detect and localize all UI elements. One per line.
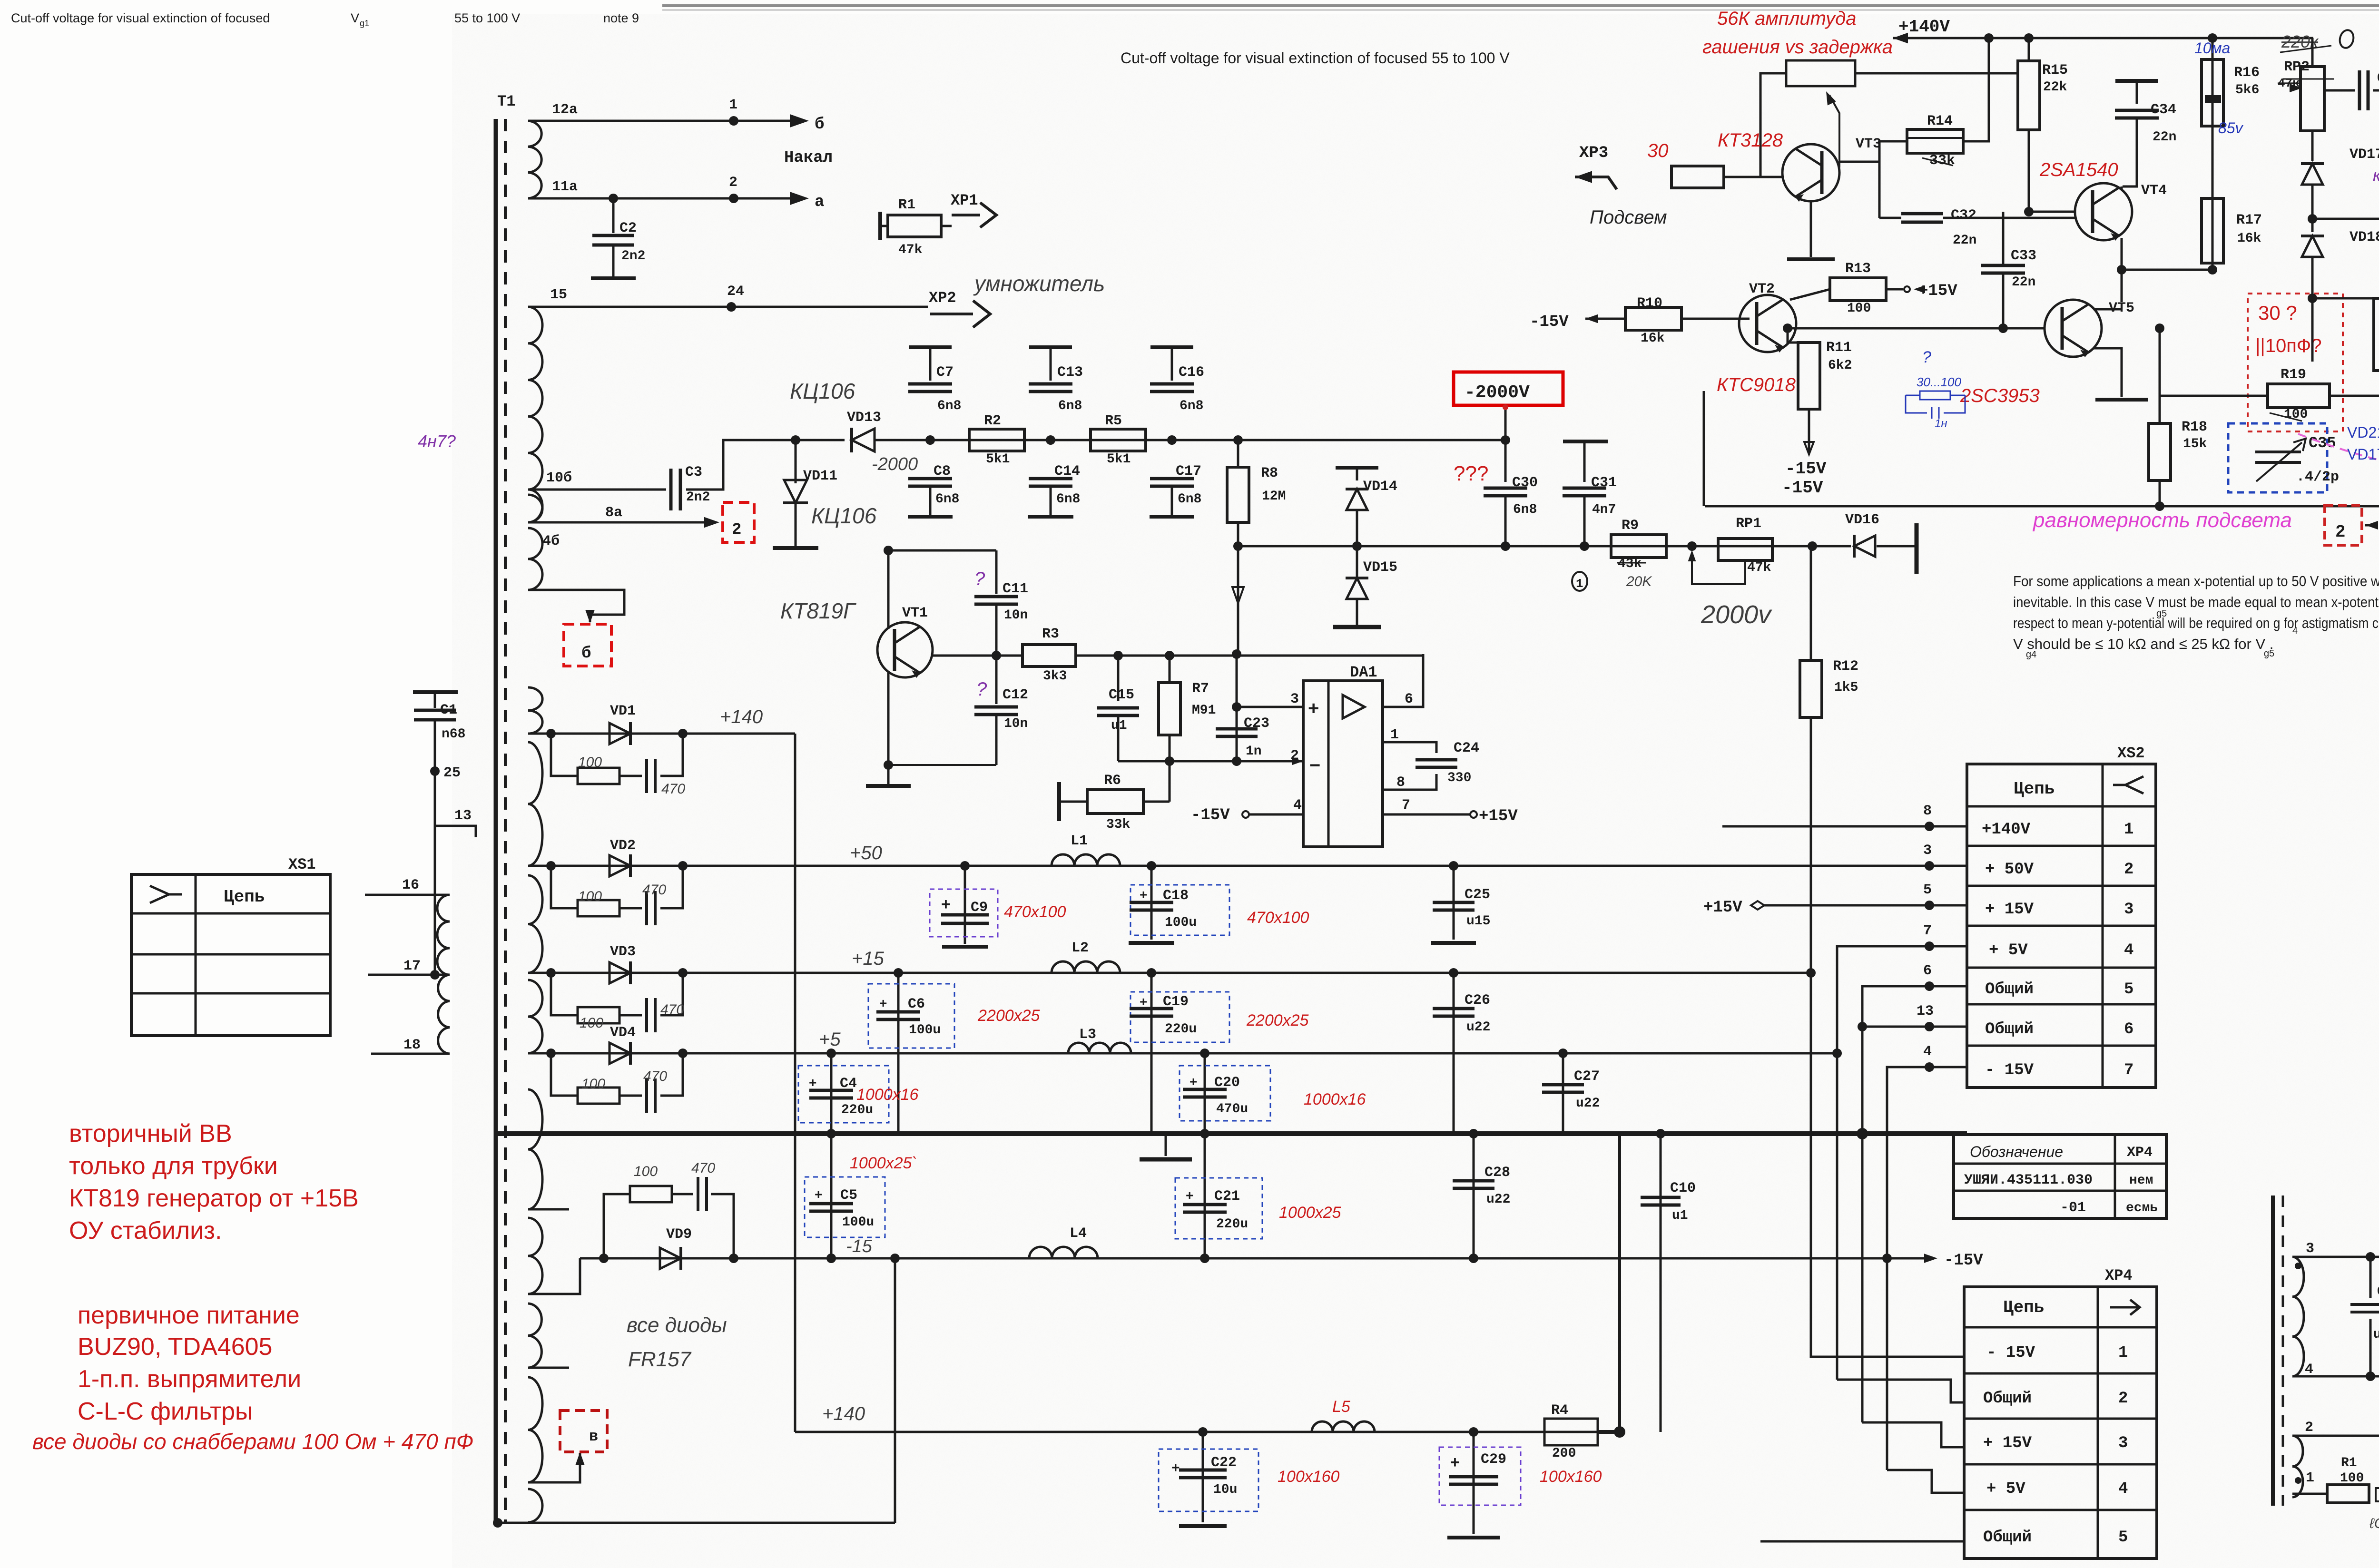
thick vertical from R4 node to bus <box>1618 1134 1621 1432</box>
svg-text:+: + <box>1189 1074 1197 1089</box>
svg-text:1: 1 <box>2306 1470 2314 1486</box>
svg-text:100: 100 <box>1847 301 1871 316</box>
svg-text:C32: C32 <box>1951 207 1976 224</box>
svg-text:220u: 220u <box>1216 1217 1248 1232</box>
svg-text:11a: 11a <box>552 179 578 195</box>
svg-text:5: 5 <box>1923 882 1932 898</box>
svg-text:2200x25: 2200x25 <box>977 1007 1040 1025</box>
-15V long wire <box>1705 505 2379 508</box>
svg-text:+ 5V: + 5V <box>1989 941 2028 960</box>
red dashed box node 2 <box>723 502 754 542</box>
series resistor 30ohm <box>1671 166 1724 188</box>
T1 winding VD4 section <box>528 980 542 1053</box>
svg-text:+: + <box>1171 1460 1180 1476</box>
svg-text:R14: R14 <box>1927 113 1953 129</box>
svg-text:C16: C16 <box>1179 364 1204 381</box>
VT5 base junction dot <box>1783 323 1792 333</box>
svg-text:C9: C9 <box>971 900 988 916</box>
svg-text:?: ? <box>974 568 985 589</box>
wire 3 +50V row <box>1932 865 1967 867</box>
svg-text:C21: C21 <box>1214 1188 1240 1205</box>
svg-text:C5: C5 <box>840 1187 857 1204</box>
svg-text:умножитель: умножитель <box>973 271 1105 296</box>
svg-text:10б: 10б <box>546 470 572 486</box>
svg-text:C15: C15 <box>1109 687 1134 703</box>
R11 bottom -15V arrow <box>1808 409 1810 454</box>
svg-text:XS2: XS2 <box>2117 745 2145 762</box>
svg-text:-15V: -15V <box>1530 313 1569 331</box>
capacitor C5 100u 1000x25 <box>826 1129 836 1138</box>
diode VD17 symbol <box>2311 153 2314 161</box>
svg-text:C17: C17 <box>1176 463 1201 480</box>
ferrite bead <box>2376 1488 2379 1501</box>
svg-text:g5: g5 <box>2264 648 2274 659</box>
svg-text:1k5: 1k5 <box>1834 680 1858 695</box>
svg-text:VT3: VT3 <box>1856 136 1881 152</box>
VT5 collector ground bar <box>2121 354 2123 397</box>
node 1 with arrow to b <box>729 116 738 126</box>
svg-text:10u: 10u <box>1213 1482 1237 1497</box>
svg-text:25: 25 <box>443 765 461 781</box>
capacitor C21 220u 1000x25 <box>1200 1129 1209 1138</box>
svg-text:1: 1 <box>2124 821 2133 839</box>
svg-text:+140: +140 <box>720 706 763 727</box>
node R4 output <box>1614 1426 1625 1438</box>
node 25 <box>430 766 440 776</box>
resistor R16 5k6 <box>2202 59 2223 126</box>
svg-text:5k1: 5k1 <box>1107 452 1131 467</box>
svg-text:+ 15V: + 15V <box>1985 901 2034 919</box>
svg-text:1: 1 <box>2118 1344 2128 1362</box>
svg-text:5: 5 <box>2124 980 2133 999</box>
resistor R4 200 <box>1544 1419 1598 1445</box>
svg-text:б: б <box>581 645 591 663</box>
svg-text:10n: 10n <box>1004 716 1028 731</box>
resistor R8 12M <box>1237 440 1239 468</box>
svg-text:6n8: 6n8 <box>1513 502 1537 517</box>
arrow into node2 box <box>2365 524 2377 527</box>
svg-text:L1: L1 <box>1071 833 1088 849</box>
svg-text:470: 470 <box>661 781 685 797</box>
svg-text:C25: C25 <box>1465 887 1490 903</box>
capacitor C16 6n8 <box>1150 345 1193 349</box>
svg-text:VT2: VT2 <box>1749 281 1775 297</box>
capacitor C17 6n8 <box>1150 477 1194 480</box>
potentiometer RP1 47k <box>1687 541 1697 551</box>
svg-text:+: + <box>1140 994 1147 1009</box>
svg-text:L5: L5 <box>1332 1398 1350 1416</box>
svg-text:C24: C24 <box>1454 740 1479 756</box>
ground bar under VD11 <box>773 546 818 550</box>
resistor R9 43k 20K <box>1611 535 1666 558</box>
svg-text:C26: C26 <box>1465 992 1490 1009</box>
svg-text:C-L-C фильтры: C-L-C фильтры <box>78 1398 253 1425</box>
svg-text:2: 2 <box>2124 861 2133 879</box>
svg-text:в: в <box>589 1428 598 1445</box>
svg-text:первичное питание: первичное питание <box>78 1302 300 1329</box>
resistor R2 5k1 <box>969 429 1024 451</box>
capacitor C1 n68 top bar <box>413 690 458 694</box>
terminal bar after VD16 <box>1915 523 1919 574</box>
osc transformer core <box>2271 1196 2275 1506</box>
svg-text:C19: C19 <box>1163 994 1189 1010</box>
svg-text:+50: +50 <box>850 843 882 863</box>
svg-text:4: 4 <box>2292 626 2298 636</box>
svg-text:3: 3 <box>2118 1434 2128 1452</box>
svg-text:R1: R1 <box>898 197 915 213</box>
T1 winding VD1 section <box>528 687 542 734</box>
svg-text:22k: 22k <box>2043 80 2067 95</box>
capacitor C4 220u 1000x16 <box>826 1049 836 1058</box>
svg-text:55 to 100 V: 55 to 100 V <box>454 11 520 25</box>
svg-text:−: − <box>1309 755 1320 776</box>
svg-text:6n8: 6n8 <box>1056 492 1080 507</box>
T1 winding 4b <box>528 528 542 590</box>
T1 winding bottom section <box>528 1377 542 1482</box>
svg-text:10n: 10n <box>1004 608 1028 623</box>
svg-text:+: + <box>879 996 887 1010</box>
svg-text:+: + <box>1308 698 1319 719</box>
svg-text:DA1: DA1 <box>1350 664 1377 681</box>
node 24 wire to XP2 <box>727 302 736 312</box>
svg-text:4: 4 <box>1923 1044 1932 1060</box>
svg-text:100u: 100u <box>842 1215 874 1230</box>
svg-text:47k: 47k <box>898 243 923 257</box>
capacitor C14 6n8 <box>1029 477 1072 480</box>
diode VD14 <box>1336 466 1378 470</box>
svg-text:15k: 15k <box>2183 437 2207 451</box>
svg-text:XP1: XP1 <box>951 192 978 209</box>
svg-text:For some applications a me: For some applications a mean x-potential… <box>2013 573 2379 589</box>
svg-text:BUZ90, TDA4605: BUZ90, TDA4605 <box>78 1333 272 1361</box>
svg-text:C28: C28 <box>1484 1165 1510 1181</box>
svg-text:Подсвем: Подсвем <box>1590 207 1667 228</box>
svg-text:+140V: +140V <box>1982 821 2031 839</box>
magenta dashed leader line <box>2298 434 2379 474</box>
svg-text:+: + <box>809 1075 816 1090</box>
-15 rail <box>580 1257 1931 1260</box>
snubber R100 C470 for VD1 <box>551 734 578 776</box>
capacitor C30 6n8 <box>1501 435 1510 445</box>
svg-text:13: 13 <box>454 808 472 824</box>
capacitor C7 6n8 <box>909 345 952 349</box>
+140 vertical distribution wire <box>794 734 796 1432</box>
svg-text:2: 2 <box>2335 522 2346 542</box>
svg-text:VD14: VD14 <box>1363 479 1397 495</box>
svg-text:u47: u47 <box>2373 1327 2379 1342</box>
svg-text:-2000: -2000 <box>872 454 918 474</box>
choke L3 on +5 rail <box>1068 1043 1131 1053</box>
svg-text:u15: u15 <box>1466 914 1490 929</box>
pot right lead to +140 <box>1855 72 2017 75</box>
capacitor C25 u15 <box>1449 861 1458 871</box>
osc primary winding top <box>2292 1257 2304 1376</box>
capacitor C19 220u 2200x25 <box>1147 968 1156 978</box>
capacitor C27 u22 <box>1558 1049 1568 1058</box>
svg-text:XP2: XP2 <box>929 289 956 307</box>
svg-text:g1: g1 <box>360 19 369 28</box>
svg-text:все диоды со снабберами 100 Ом: все диоды со снабберами 100 Ом + 470 пФ <box>32 1429 473 1454</box>
svg-text:100: 100 <box>578 889 602 904</box>
svg-text:+140: +140 <box>822 1403 865 1424</box>
svg-text:-2000V: -2000V <box>1465 382 1530 403</box>
secondary winding 17-18 <box>438 975 450 1054</box>
resistor R7 M91 <box>1165 651 1174 660</box>
resistor R5 5k1 <box>1091 429 1146 451</box>
svg-text:100x160: 100x160 <box>1278 1468 1340 1486</box>
svg-text:C2: C2 <box>619 220 637 236</box>
svg-text:FR157: FR157 <box>628 1348 692 1371</box>
+140V top rail <box>1893 33 1908 43</box>
op-amp pin7 +15V <box>1383 813 1470 816</box>
svg-text:+: + <box>1186 1188 1193 1203</box>
svg-text:равномерность подсвета: равномерность подсвета <box>2032 509 2292 532</box>
wire 13 common row elbow <box>1862 1026 1967 1028</box>
svg-text:VD9: VD9 <box>666 1226 692 1243</box>
svg-text:R18: R18 <box>2182 419 2207 435</box>
svg-text:Общий: Общий <box>1985 1020 2034 1039</box>
capacitor C29 100x160 <box>1469 1427 1478 1437</box>
svg-text:КTC9018: КTC9018 <box>1717 374 1796 395</box>
T1 winding 15-24 <box>528 307 542 490</box>
osc bottom of primary wire <box>2292 1375 2379 1378</box>
resistor R19 100 <box>2268 384 2330 408</box>
svg-text:8: 8 <box>1396 774 1405 791</box>
T1 winding 8a <box>528 495 542 522</box>
R16 column wire <box>2212 38 2214 270</box>
svg-text:1000x25: 1000x25 <box>1279 1204 1341 1222</box>
svg-text:все диоды: все диоды <box>627 1313 727 1337</box>
capacitor C28 u22 <box>1469 1129 1478 1138</box>
svg-text:C14: C14 <box>1054 463 1080 480</box>
osc wire pin3 top rail <box>2292 1256 2379 1258</box>
svg-text:u1: u1 <box>1672 1208 1688 1223</box>
snubber R100 C470 for VD3 <box>551 973 578 1015</box>
transistor VT5 2SC3953 <box>2045 300 2102 357</box>
svg-text:22n: 22n <box>1953 233 1976 248</box>
svg-text:VT1: VT1 <box>902 605 928 621</box>
RP1 wiper loop <box>1692 553 1745 584</box>
svg-text:R6: R6 <box>1104 773 1121 789</box>
svg-text:-15V: -15V <box>1944 1252 1983 1270</box>
blanking potentiometer <box>1786 60 1855 86</box>
wire C32 end <box>1943 217 2075 219</box>
svg-text:C3: C3 <box>685 464 702 480</box>
svg-text:30: 30 <box>1647 140 1669 161</box>
capacitor C9 470x100 on +50 rail <box>960 861 970 871</box>
choke L2 on +15 rail <box>1052 961 1120 973</box>
svg-text:VD3: VD3 <box>610 944 636 960</box>
svg-text:7: 7 <box>2124 1061 2133 1079</box>
svg-text:.4/2р: .4/2р <box>2296 469 2339 485</box>
svg-text:100u: 100u <box>1165 915 1197 930</box>
svg-text:?: ? <box>976 679 987 700</box>
wire op-amp -15V frame corner <box>1703 391 1705 506</box>
svg-text:470x100: 470x100 <box>1247 909 1309 927</box>
svg-text:5k6: 5k6 <box>2235 83 2259 98</box>
svg-text:5: 5 <box>2118 1529 2128 1547</box>
svg-text:R10: R10 <box>1637 295 1662 312</box>
capacitor C2 2n2 <box>609 194 618 203</box>
+15V arrow right of R13 <box>1904 286 1910 292</box>
svg-text:КЦ106: КЦ106 <box>811 503 877 528</box>
osc wire pin2 to base feedback <box>2292 1435 2379 1437</box>
svg-text:6n8: 6n8 <box>1178 492 1201 507</box>
svg-text:C8: C8 <box>934 463 951 480</box>
resistor R15 22k <box>2028 38 2030 60</box>
capacitor C11 10n <box>995 550 998 594</box>
wire from +140 down to R14 <box>1963 38 1989 141</box>
svg-text:470: 470 <box>643 1068 667 1084</box>
red dashed box node 2 right <box>2325 505 2362 545</box>
svg-text:note 9: note 9 <box>603 11 639 25</box>
svg-text:-15V: -15V <box>1782 478 1823 498</box>
op-amp plus input wire pin 3 <box>1237 706 1303 708</box>
svg-text:Общий: Общий <box>1985 980 2034 999</box>
svg-text:g5: g5 <box>2156 608 2167 619</box>
svg-text:R5: R5 <box>1105 413 1122 429</box>
red dashed box node b <box>564 624 611 666</box>
svg-text:3: 3 <box>2124 901 2133 919</box>
svg-text:2: 2 <box>2305 1420 2313 1436</box>
svg-text:6n8: 6n8 <box>937 399 961 413</box>
svg-text:VT4: VT4 <box>2141 183 2167 199</box>
ground under C2 <box>591 276 636 280</box>
ground bar under VD15 <box>1333 625 1381 629</box>
svg-text:Общий: Общий <box>1983 1529 2032 1547</box>
capacitor C3 2n2 <box>669 469 673 510</box>
svg-text:R2: R2 <box>984 413 1001 429</box>
svg-text:n68: n68 <box>442 727 465 742</box>
svg-text:6: 6 <box>1923 963 1932 979</box>
svg-text:5k1: 5k1 <box>986 452 1010 467</box>
HV rail B <box>1238 545 1851 548</box>
svg-text:43k: 43k <box>1618 557 1642 571</box>
svg-text:7: 7 <box>1923 923 1932 939</box>
resistor R20 1k <box>2374 298 2379 371</box>
svg-text:4: 4 <box>1293 797 1302 813</box>
svg-text:22n: 22n <box>2012 275 2035 290</box>
svg-text:-15V: -15V <box>1191 806 1230 824</box>
svg-text:VD18: VD18 <box>2350 229 2379 245</box>
svg-text:4б: 4б <box>542 533 560 549</box>
winding tap stub 2 <box>528 1303 541 1368</box>
svg-text:1н: 1н <box>1935 417 1947 430</box>
svg-text:100: 100 <box>2340 1471 2364 1486</box>
svg-text:1000x25`: 1000x25` <box>850 1154 917 1172</box>
svg-text:8: 8 <box>1923 803 1932 819</box>
svg-text:47к: 47к <box>2278 76 2300 90</box>
transistor VT4 2SA1540 <box>2075 183 2132 240</box>
svg-text:+5: +5 <box>819 1029 841 1050</box>
capacitor C15 u1 <box>1113 651 1123 660</box>
svg-text:VD17: VD17 <box>2350 147 2379 163</box>
wire 6 common row elbow <box>1862 986 1967 1134</box>
diode VD18 <box>2308 214 2317 224</box>
snubber R100 C470 for VD2 <box>551 866 578 908</box>
capacitor C6 100u 2200x25 <box>894 968 903 978</box>
diode VD15 <box>1346 578 1368 599</box>
resistor R6 33k <box>1057 782 1061 821</box>
svg-text:+15: +15 <box>852 948 885 969</box>
capacitor C13 6n8 <box>1029 345 1072 349</box>
svg-text:R19: R19 <box>2281 367 2306 383</box>
svg-text:16: 16 <box>402 877 419 893</box>
common bus thick <box>498 1131 1967 1136</box>
svg-text:RP1: RP1 <box>1736 516 1761 532</box>
diode VD16 <box>1808 541 1817 551</box>
svg-text:17: 17 <box>403 958 421 974</box>
svg-text:220u: 220u <box>1165 1022 1197 1037</box>
svg-text:VD11: VD11 <box>803 468 837 484</box>
svg-text:нем: нем <box>2129 1173 2153 1188</box>
transistor VT3 KT3128 <box>1782 144 1839 201</box>
svg-text:XP3: XP3 <box>1579 144 1608 162</box>
svg-text:L4: L4 <box>1070 1225 1087 1242</box>
connector table XS1 <box>131 874 330 1036</box>
capacitor C22 10u 100x160 <box>1198 1427 1208 1437</box>
svg-text:C35: C35 <box>2309 434 2336 452</box>
svg-text:6: 6 <box>2124 1020 2133 1039</box>
wire RP2 bottom to VD17 and C37 <box>2311 131 2314 153</box>
svg-text:R13: R13 <box>1845 261 1871 277</box>
svg-text:470u: 470u <box>1216 1102 1248 1117</box>
op-amp DA1 body <box>1303 681 1383 847</box>
svg-text:Cut-off voltage for visual ext: Cut-off voltage for visual extinction of… <box>11 11 270 25</box>
svg-text:C31: C31 <box>1591 475 1617 491</box>
resistor R17 16k <box>2202 198 2223 263</box>
VT5 collector elbow <box>2094 308 2122 311</box>
svg-text:-15V: -15V <box>1785 459 1827 479</box>
capacitor C8 6n8 <box>908 477 952 480</box>
svg-text:6k2: 6k2 <box>1828 358 1852 373</box>
svg-text:вторичный ВВ: вторичный ВВ <box>69 1120 232 1147</box>
svg-text:+: + <box>941 895 951 913</box>
svg-text:2000v: 2000v <box>1701 600 1772 629</box>
svg-text:+15V: +15V <box>1918 282 1957 300</box>
wire VD18 to R20 top <box>2312 297 2379 300</box>
svg-text:6: 6 <box>1405 691 1413 707</box>
svg-text:2: 2 <box>729 175 737 191</box>
svg-text:100x160: 100x160 <box>1540 1468 1602 1486</box>
svg-text:8а: 8а <box>605 505 622 521</box>
svg-text:30...100: 30...100 <box>1917 375 1962 389</box>
svg-text:15: 15 <box>550 287 567 303</box>
svg-text:б: б <box>815 116 824 134</box>
svg-text:C10: C10 <box>1670 1180 1696 1196</box>
svg-text:2n2: 2n2 <box>621 249 645 264</box>
svg-text:+: + <box>1140 887 1147 902</box>
C10 connection to R4 node <box>1660 1258 1662 1432</box>
svg-text:470: 470 <box>642 882 666 898</box>
svg-text:4н7?: 4н7? <box>418 431 456 451</box>
svg-text:85v: 85v <box>2218 119 2244 137</box>
VT2 base from R10 <box>1739 318 1750 320</box>
svg-text:1: 1 <box>1390 727 1399 743</box>
svg-text:R17: R17 <box>2236 212 2262 228</box>
svg-text:C7: C7 <box>936 364 954 381</box>
svg-text:как в гайде: как в гайде <box>2373 165 2379 185</box>
+15 rail junction into vertical <box>1806 968 1816 978</box>
svg-text:XP4: XP4 <box>2105 1267 2133 1284</box>
osc capacitor C1 u47 <box>2366 1252 2375 1262</box>
op-amp output pin 6 feedback <box>1383 654 1423 707</box>
svg-text:4: 4 <box>2118 1480 2128 1498</box>
svg-text:12a: 12a <box>552 102 578 118</box>
wire XP3 to pot <box>1760 73 1786 177</box>
svg-text:inevitable. In this case V: inevitable. In this case V must be made … <box>2013 594 2379 610</box>
svg-text:16k: 16k <box>2237 231 2261 246</box>
